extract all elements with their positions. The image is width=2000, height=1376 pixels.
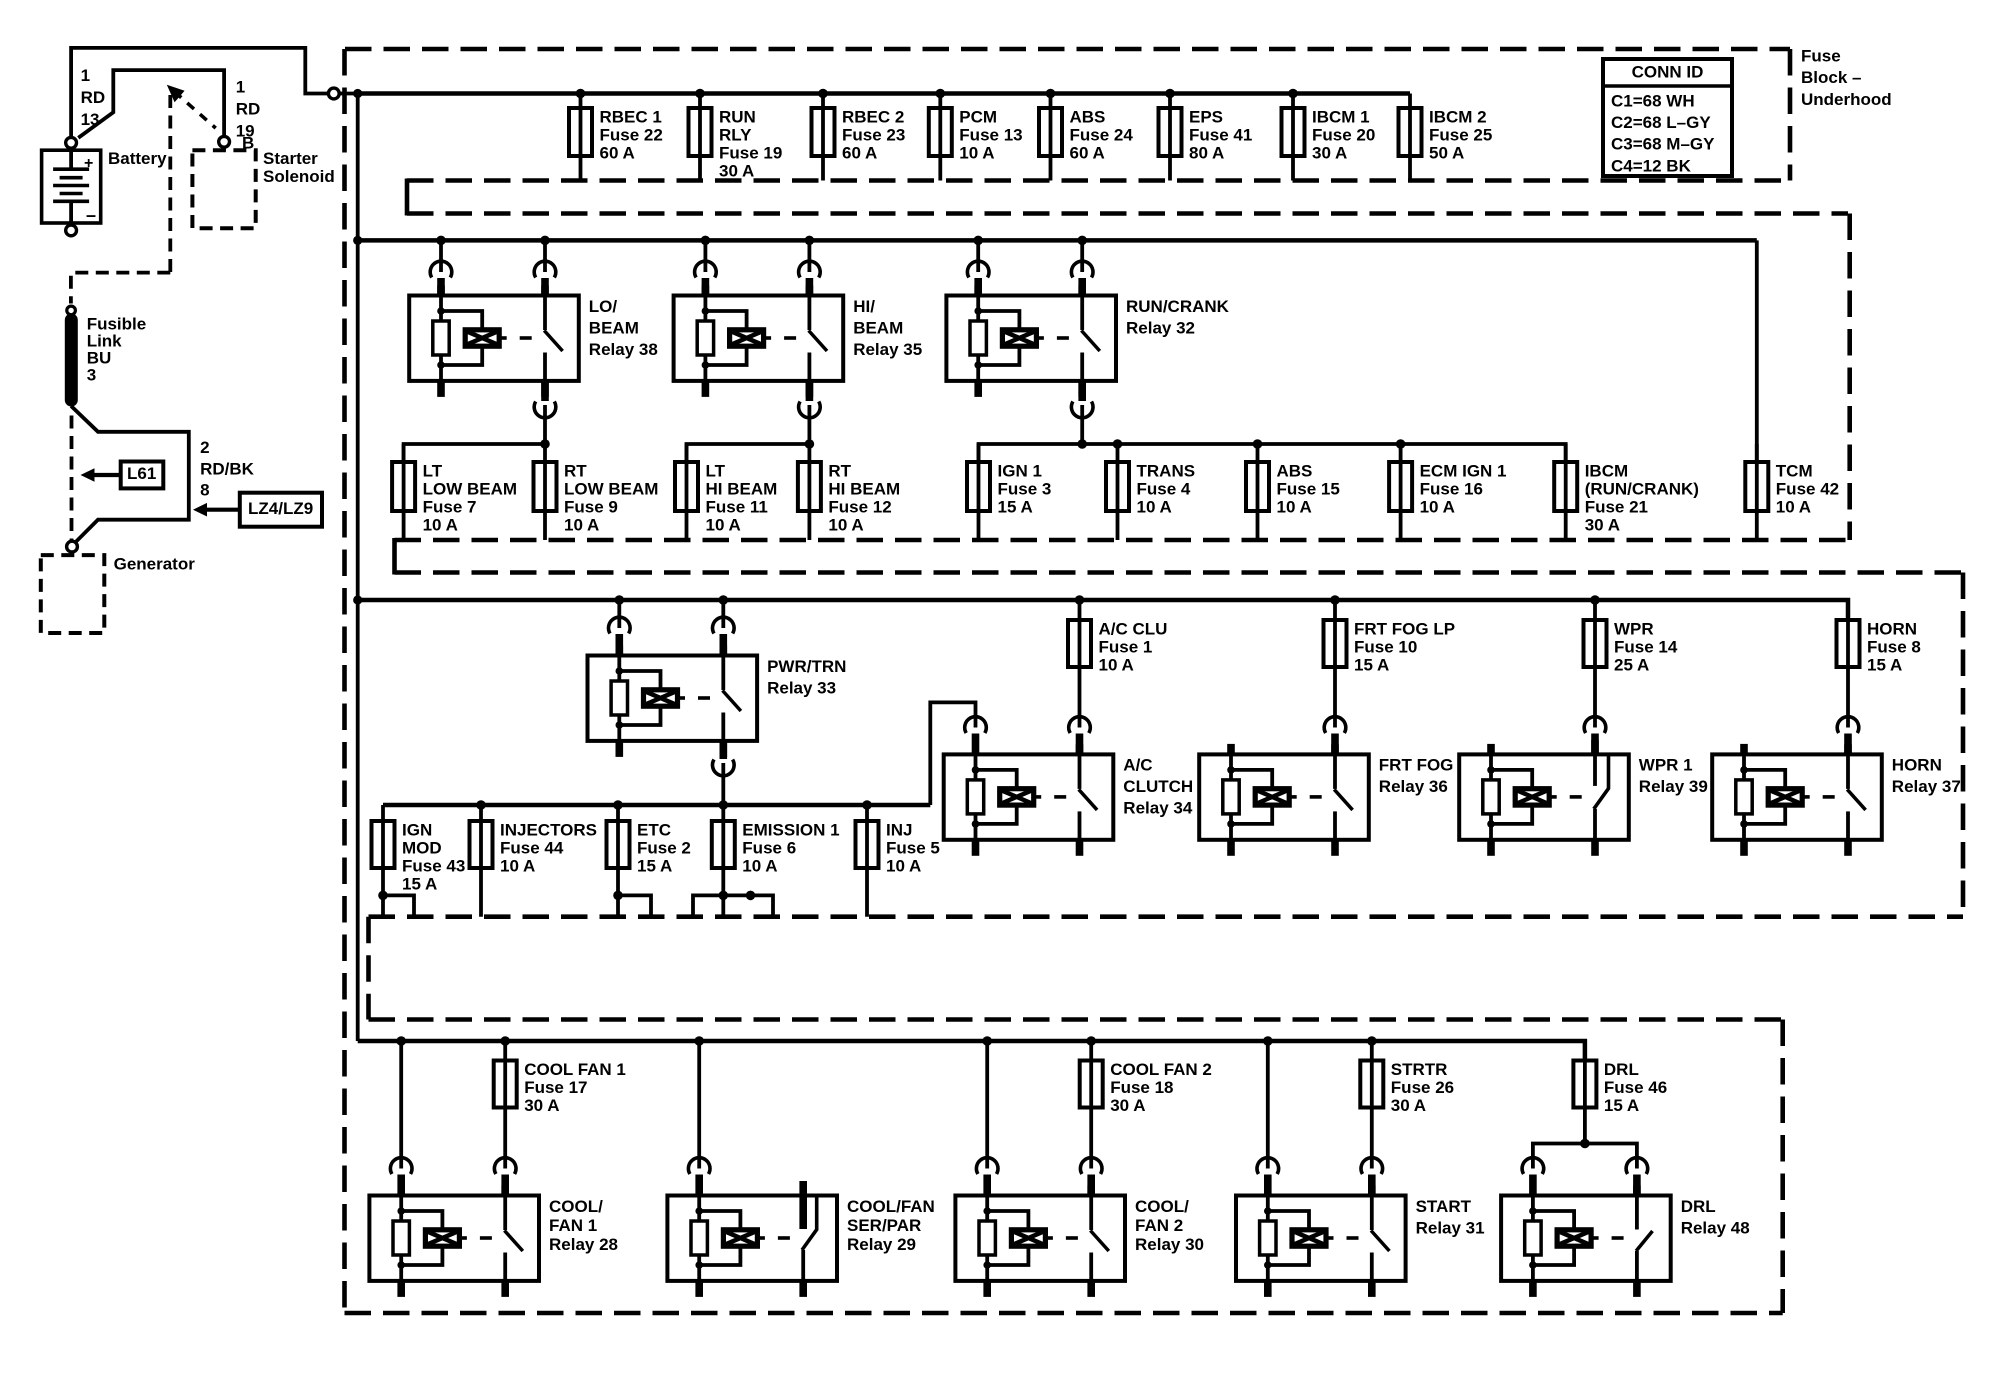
svg-text:13: 13 bbox=[81, 110, 100, 129]
svg-text:ABS: ABS bbox=[1277, 461, 1313, 480]
svg-text:1: 1 bbox=[236, 77, 245, 96]
svg-text:60 A: 60 A bbox=[1070, 143, 1105, 162]
wire hi beam link bbox=[687, 444, 810, 462]
svg-text:Fuse 9: Fuse 9 bbox=[564, 497, 618, 516]
node bus 1 at IBCM 1 bbox=[1288, 89, 1298, 99]
svg-text:HORN: HORN bbox=[1892, 756, 1942, 775]
wire bus to relay 30 coil bbox=[976, 1041, 998, 1196]
svg-text:10 A: 10 A bbox=[828, 515, 863, 534]
connector below fuse HORN bbox=[1837, 717, 1859, 755]
svg-text:Relay 48: Relay 48 bbox=[1681, 1218, 1750, 1237]
svg-text:1: 1 bbox=[81, 66, 90, 85]
svg-text:Relay 32: Relay 32 bbox=[1126, 318, 1195, 337]
connector relay 48 coil bbox=[1522, 1158, 1544, 1196]
fuse STRTR Fuse 26 bbox=[1360, 1041, 1454, 1169]
generator terminal bbox=[67, 541, 78, 552]
svg-text:Fuse 17: Fuse 17 bbox=[524, 1078, 587, 1097]
svg-text:FAN 2: FAN 2 bbox=[1135, 1216, 1183, 1235]
svg-text:COOL FAN 1: COOL FAN 1 bbox=[524, 1060, 626, 1079]
wire bus to relay 31 coil bbox=[1257, 1041, 1279, 1196]
section 2 bus wire bbox=[358, 238, 1757, 243]
svg-text:LOW BEAM: LOW BEAM bbox=[423, 479, 517, 498]
relay A/C CLUTCH Relay 34 bbox=[944, 744, 1193, 855]
svg-text:COOL/FAN: COOL/FAN bbox=[847, 1197, 935, 1216]
svg-text:RD: RD bbox=[236, 100, 261, 119]
fuse RBEC 1 (Fuse 22) bbox=[569, 94, 663, 181]
svg-text:(RUN/CRANK): (RUN/CRANK) bbox=[1585, 479, 1699, 498]
fuse EMISSION 1 Fuse 6 bbox=[712, 805, 840, 917]
svg-text:Relay 38: Relay 38 bbox=[589, 340, 658, 359]
fuse ABS (Fuse 24) bbox=[1039, 94, 1133, 181]
svg-text:BEAM: BEAM bbox=[589, 318, 639, 337]
node bus 4 feed relay 29 coil bbox=[694, 1036, 704, 1046]
node bus 4 feed relay 30 coil bbox=[982, 1036, 992, 1046]
section 3 to 4 dashed left jog bbox=[366, 917, 371, 1020]
connector jumper IGN MOD bbox=[378, 891, 414, 917]
svg-text:RD: RD bbox=[81, 88, 106, 107]
svg-text:15 A: 15 A bbox=[1604, 1096, 1639, 1115]
fusible link top terminal bbox=[67, 306, 76, 315]
svg-text:10 A: 10 A bbox=[1776, 497, 1811, 516]
section 4 top dashed edge bbox=[369, 1017, 1783, 1022]
svg-text:Fuse 3: Fuse 3 bbox=[998, 479, 1052, 498]
connector C2 bar top dashed edge bbox=[395, 538, 1850, 543]
svg-text:15 A: 15 A bbox=[1354, 655, 1389, 674]
svg-text:Relay 33: Relay 33 bbox=[767, 678, 836, 697]
svg-text:TCM: TCM bbox=[1776, 461, 1813, 480]
svg-text:ETC: ETC bbox=[637, 820, 671, 839]
svg-text:Fuse 13: Fuse 13 bbox=[959, 125, 1022, 144]
relay DRL Relay 48 bbox=[1501, 1186, 1750, 1297]
svg-text:RUN: RUN bbox=[719, 107, 756, 126]
svg-text:HI BEAM: HI BEAM bbox=[828, 479, 900, 498]
svg-text:Fuse 15: Fuse 15 bbox=[1277, 479, 1340, 498]
fuse ABS Fuse 15 bbox=[1246, 444, 1340, 540]
svg-text:IGN 1: IGN 1 bbox=[998, 461, 1042, 480]
wire DRL fuse split bbox=[1533, 1144, 1637, 1169]
svg-text:HI/: HI/ bbox=[853, 297, 875, 316]
svg-text:Fuse 14: Fuse 14 bbox=[1614, 637, 1678, 656]
svg-text:2: 2 bbox=[200, 438, 209, 457]
svg-text:Relay 29: Relay 29 bbox=[847, 1235, 916, 1254]
fuse EPS (Fuse 41) bbox=[1159, 94, 1253, 181]
svg-text:RD/BK: RD/BK bbox=[200, 459, 255, 478]
section 3 bus wire bbox=[358, 600, 1848, 620]
node bus 2 feed relay 35 switch bbox=[805, 236, 815, 246]
svg-text:RT: RT bbox=[564, 461, 587, 480]
svg-text:C3=68 M–GY: C3=68 M–GY bbox=[1611, 135, 1715, 154]
svg-text:15 A: 15 A bbox=[637, 856, 672, 875]
wires relay 35 connectors bbox=[695, 240, 821, 444]
node trunk top bbox=[353, 89, 362, 98]
svg-text:ECM IGN 1: ECM IGN 1 bbox=[1420, 461, 1507, 480]
label box L61 bbox=[81, 462, 164, 489]
svg-text:10 A: 10 A bbox=[1420, 497, 1455, 516]
node bus 1 at RUN bbox=[695, 89, 705, 99]
relay COOL/FAN SER/PAR Relay 29 bbox=[667, 1181, 934, 1297]
svg-text:30 A: 30 A bbox=[1585, 515, 1620, 534]
fuse COOL FAN 1 Fuse 17 bbox=[494, 1041, 626, 1169]
wire ring terminal to trunk bbox=[339, 92, 357, 96]
svg-text:+: + bbox=[84, 155, 93, 172]
node bus 4 feed relay 28 coil bbox=[396, 1036, 406, 1046]
svg-text:Fuse 42: Fuse 42 bbox=[1776, 479, 1839, 498]
node bus 1 at RBEC 2 bbox=[818, 89, 828, 99]
svg-text:Fuse 46: Fuse 46 bbox=[1604, 1078, 1667, 1097]
fuse IGN Fuse 43 bbox=[372, 805, 466, 917]
svg-text:50 A: 50 A bbox=[1429, 143, 1464, 162]
svg-text:10 A: 10 A bbox=[742, 856, 777, 875]
svg-text:Fuse 7: Fuse 7 bbox=[423, 497, 477, 516]
fuse RT Fuse 12 bbox=[798, 444, 900, 540]
svg-text:Fuse 6: Fuse 6 bbox=[742, 838, 796, 857]
svg-text:BEAM: BEAM bbox=[853, 318, 903, 337]
svg-text:MOD: MOD bbox=[402, 838, 442, 857]
svg-text:PCM: PCM bbox=[959, 107, 997, 126]
svg-text:Battery: Battery bbox=[108, 149, 167, 168]
svg-text:FAN 1: FAN 1 bbox=[549, 1216, 597, 1235]
node bus 4 feed relay 31 coil bbox=[1263, 1036, 1273, 1046]
svg-text:COOL/: COOL/ bbox=[1135, 1197, 1189, 1216]
svg-text:Solenoid: Solenoid bbox=[263, 167, 335, 186]
label wire 1 RD 13 bbox=[81, 66, 106, 129]
wire 2 RD/BK generator feed bbox=[71, 406, 189, 544]
node feed line at ETC fuse bbox=[613, 800, 623, 810]
svg-text:Fuse 1: Fuse 1 bbox=[1099, 637, 1153, 656]
svg-text:Fuse 44: Fuse 44 bbox=[500, 838, 564, 857]
wire injector fuse feed line bbox=[383, 702, 976, 805]
node bus 3 feed relay 33 coil bbox=[615, 595, 625, 605]
fuse IBCM 1 (Fuse 20) bbox=[1282, 94, 1376, 181]
svg-text:Relay 28: Relay 28 bbox=[549, 1235, 618, 1254]
svg-text:IBCM 1: IBCM 1 bbox=[1312, 107, 1370, 126]
svg-text:WPR: WPR bbox=[1614, 619, 1654, 638]
connector C2 bar left jog bbox=[392, 538, 397, 575]
connector below fuse COOL FAN 2 bbox=[1080, 1158, 1102, 1196]
svg-text:RUN/CRANK: RUN/CRANK bbox=[1126, 297, 1230, 316]
svg-text:3: 3 bbox=[87, 366, 96, 385]
connector C1 bar left jog bbox=[405, 179, 410, 216]
svg-text:HI BEAM: HI BEAM bbox=[706, 479, 778, 498]
svg-text:10 A: 10 A bbox=[706, 515, 741, 534]
svg-text:10 A: 10 A bbox=[1137, 497, 1172, 516]
section 3 dashed right edge bbox=[1961, 573, 1966, 917]
node bus 4 feed STRTR fuse bbox=[1367, 1036, 1377, 1046]
section 1 bus wire bbox=[358, 91, 1410, 96]
svg-text:IBCM 2: IBCM 2 bbox=[1429, 107, 1487, 126]
label box LZ4/LZ9 bbox=[193, 493, 322, 527]
svg-text:Block –: Block – bbox=[1801, 68, 1861, 87]
svg-text:Fuse 10: Fuse 10 bbox=[1354, 637, 1417, 656]
fuse HORN Fuse 8 bbox=[1837, 619, 1921, 727]
node feed line at INJECTORS fuse bbox=[476, 800, 486, 810]
fusible link BU 3 bbox=[65, 314, 78, 407]
svg-text:Fuse 4: Fuse 4 bbox=[1137, 479, 1191, 498]
connector jumper EMISSION 1 bbox=[693, 891, 773, 917]
connector C2 bar bottom dashed edge bbox=[395, 570, 1964, 575]
fuse block underhood dashed box right edge bbox=[1788, 49, 1793, 181]
node run/crank link at ABS fuse bbox=[1253, 439, 1263, 449]
svg-text:EPS: EPS bbox=[1189, 107, 1223, 126]
svg-text:–: – bbox=[86, 205, 96, 225]
wire low beam link bbox=[404, 444, 545, 462]
svg-text:Fuse 19: Fuse 19 bbox=[719, 143, 782, 162]
wire main trunk vertical bbox=[356, 94, 360, 1042]
svg-text:Fuse 2: Fuse 2 bbox=[637, 838, 691, 857]
ring terminal at fuse block feed bbox=[328, 88, 339, 99]
relay HORN Relay 37 bbox=[1712, 744, 1961, 856]
svg-text:Relay 31: Relay 31 bbox=[1416, 1218, 1485, 1237]
fuse IBCM Fuse 21 bbox=[1554, 444, 1699, 540]
svg-text:C2=68 L–GY: C2=68 L–GY bbox=[1611, 113, 1711, 132]
relay FRT FOG Relay 36 bbox=[1199, 744, 1453, 856]
node bus 2 feed relay 35 coil bbox=[701, 236, 711, 246]
svg-text:Relay 36: Relay 36 bbox=[1379, 777, 1448, 796]
svg-text:DRL: DRL bbox=[1681, 1197, 1716, 1216]
svg-text:TRANS: TRANS bbox=[1137, 461, 1196, 480]
section 4 dashed right edge bbox=[1780, 1020, 1785, 1314]
svg-text:30 A: 30 A bbox=[719, 161, 754, 180]
fuse A/C CLU Fuse 1 bbox=[1068, 600, 1167, 728]
wire battery positive to top bus bbox=[71, 48, 328, 137]
connector relay 34 coil bbox=[965, 717, 987, 755]
svg-text:HORN: HORN bbox=[1867, 619, 1917, 638]
section 3 bottom dashed edge bbox=[369, 914, 1964, 919]
relay WPR 1 Relay 39 bbox=[1459, 740, 1708, 856]
node trunk at section 2 bus bbox=[353, 236, 362, 245]
fuse RT Fuse 9 bbox=[534, 444, 659, 540]
svg-text:Fuse 25: Fuse 25 bbox=[1429, 125, 1492, 144]
svg-text:10 A: 10 A bbox=[1099, 655, 1134, 674]
node bus 2 feed relay 38 coil bbox=[436, 236, 446, 246]
section 4 bottom dashed edge bbox=[345, 1311, 1783, 1316]
fuse ECM IGN 1 Fuse 16 bbox=[1389, 444, 1506, 540]
svg-text:Starter: Starter bbox=[263, 149, 318, 168]
node bus 1 at PCM bbox=[936, 89, 946, 99]
svg-text:CLUTCH: CLUTCH bbox=[1123, 777, 1193, 796]
svg-text:PWR/TRN: PWR/TRN bbox=[767, 657, 846, 676]
svg-text:Fuse 21: Fuse 21 bbox=[1585, 497, 1648, 516]
fuse COOL FAN 2 Fuse 18 bbox=[1080, 1041, 1212, 1169]
svg-text:Relay 30: Relay 30 bbox=[1135, 1235, 1204, 1254]
label Generator bbox=[114, 554, 196, 573]
wires relay 38 connectors bbox=[430, 240, 556, 444]
svg-text:C4=12 BK: C4=12 BK bbox=[1611, 156, 1692, 175]
wire run/crank link bbox=[979, 444, 1566, 462]
node relay 33 output at feed line bbox=[719, 800, 729, 810]
connector C1 bar bottom dashed edge bbox=[407, 211, 1848, 216]
svg-text:Fuse 24: Fuse 24 bbox=[1070, 125, 1134, 144]
svg-text:Fuse: Fuse bbox=[1801, 46, 1841, 65]
svg-text:Fuse 5: Fuse 5 bbox=[886, 838, 940, 857]
label wire 1 RD 19 bbox=[236, 77, 261, 152]
svg-text:ABS: ABS bbox=[1070, 107, 1106, 126]
fuse WPR Fuse 14 bbox=[1584, 600, 1678, 728]
fuse ETC Fuse 2 bbox=[607, 805, 691, 917]
svg-text:Fuse 18: Fuse 18 bbox=[1110, 1078, 1173, 1097]
dashed wire fusible link to generator bbox=[70, 416, 74, 541]
svg-text:15 A: 15 A bbox=[402, 874, 437, 893]
node run/crank link at relay 32 output bbox=[1077, 439, 1087, 449]
svg-text:INJ: INJ bbox=[886, 820, 912, 839]
relay COOL/FAN 1 Relay 28 bbox=[369, 1186, 618, 1297]
svg-text:10 A: 10 A bbox=[500, 856, 535, 875]
section 4 bus wire bbox=[358, 1041, 1585, 1061]
svg-text:IGN: IGN bbox=[402, 820, 432, 839]
svg-text:RBEC 2: RBEC 2 bbox=[842, 107, 904, 126]
svg-text:RLY: RLY bbox=[719, 125, 752, 144]
node low beam link at relay 38 output bbox=[540, 439, 550, 449]
svg-text:FRT FOG: FRT FOG bbox=[1379, 756, 1454, 775]
svg-text:COOL/: COOL/ bbox=[549, 1197, 603, 1216]
ring terminal B starter solenoid bbox=[219, 136, 230, 147]
wire 1 RD 19 battery to starter solenoid B bbox=[78, 70, 224, 138]
svg-text:RBEC 1: RBEC 1 bbox=[600, 107, 662, 126]
connector below fuse FRT FOG LP bbox=[1324, 717, 1346, 755]
node run/crank link at TRANS fuse bbox=[1113, 439, 1123, 449]
svg-text:10 A: 10 A bbox=[959, 143, 994, 162]
CONN ID table bbox=[1603, 59, 1732, 176]
svg-text:Fuse 11: Fuse 11 bbox=[706, 497, 768, 516]
wires relay 32 connectors bbox=[967, 240, 1093, 444]
svg-text:Relay 37: Relay 37 bbox=[1892, 777, 1961, 796]
fuse INJECTORS Fuse 44 bbox=[470, 805, 598, 917]
fuse IBCM 2 (Fuse 25) bbox=[1399, 94, 1493, 181]
svg-text:Fuse 16: Fuse 16 bbox=[1420, 479, 1483, 498]
svg-text:EMISSION 1: EMISSION 1 bbox=[742, 820, 839, 839]
svg-text:CONN ID: CONN ID bbox=[1632, 62, 1704, 81]
relay LO/BEAM Relay 38 bbox=[409, 286, 658, 397]
svg-text:Generator: Generator bbox=[114, 554, 196, 573]
dashed wire solenoid to fusible link bbox=[71, 95, 170, 304]
connector below fuse COOL FAN 1 bbox=[494, 1158, 516, 1196]
fuse INJ Fuse 5 bbox=[856, 805, 940, 917]
node bus 2 feed relay 38 switch bbox=[540, 236, 550, 246]
relay HI/BEAM Relay 35 bbox=[674, 286, 923, 397]
svg-text:10 A: 10 A bbox=[886, 856, 921, 875]
svg-text:Relay 35: Relay 35 bbox=[853, 340, 922, 359]
node trunk at section 3 bus bbox=[353, 595, 362, 604]
fuse RUN (Fuse 19) bbox=[689, 94, 783, 181]
svg-text:8: 8 bbox=[200, 481, 209, 500]
svg-text:Fuse 12: Fuse 12 bbox=[828, 497, 891, 516]
label wire 2 RD/BK 8 bbox=[200, 438, 255, 499]
svg-text:10 A: 10 A bbox=[1277, 497, 1312, 516]
svg-text:Relay 39: Relay 39 bbox=[1639, 777, 1708, 796]
node bus 4 feed COOL FAN 2 fuse bbox=[1086, 1036, 1096, 1046]
relay RUN/CRANK Relay 32 bbox=[946, 286, 1229, 397]
node bus 3 feed relay 33 switch bbox=[719, 595, 729, 605]
svg-text:15 A: 15 A bbox=[1867, 655, 1902, 674]
svg-text:IBCM: IBCM bbox=[1585, 461, 1628, 480]
svg-text:Fuse 20: Fuse 20 bbox=[1312, 125, 1375, 144]
fuse PCM (Fuse 13) bbox=[929, 94, 1023, 181]
svg-text:Relay 34: Relay 34 bbox=[1123, 799, 1193, 818]
relay COOL/FAN 2 Relay 30 bbox=[955, 1186, 1204, 1297]
battery bbox=[42, 137, 101, 235]
node bus 1 at EPS bbox=[1165, 89, 1175, 99]
svg-text:C1=68 WH: C1=68 WH bbox=[1611, 91, 1695, 110]
node bus 1 at ABS bbox=[1046, 89, 1056, 99]
relay START Relay 31 bbox=[1236, 1186, 1485, 1297]
fuse TRANS Fuse 4 bbox=[1106, 444, 1195, 540]
label Starter Solenoid bbox=[263, 149, 335, 186]
fuse LT Fuse 11 bbox=[675, 444, 777, 540]
node bus 1 at RBEC 1 bbox=[576, 89, 586, 99]
node DRL split bbox=[1580, 1139, 1590, 1149]
wires relay 33 connectors bbox=[609, 600, 735, 805]
svg-text:L61: L61 bbox=[127, 464, 156, 483]
label Fuse Block Underhood bbox=[1801, 46, 1892, 108]
relay PWR/TRN Relay 33 bbox=[588, 646, 847, 757]
svg-text:30 A: 30 A bbox=[1312, 143, 1347, 162]
node bus 3 feed WPR fuse bbox=[1590, 595, 1600, 605]
svg-text:FRT FOG LP: FRT FOG LP bbox=[1354, 619, 1455, 638]
label Battery bbox=[108, 149, 167, 168]
svg-text:A/C CLU: A/C CLU bbox=[1099, 619, 1168, 638]
svg-text:Underhood: Underhood bbox=[1801, 90, 1892, 109]
connector below fuse STRTR bbox=[1361, 1158, 1383, 1196]
fuse FRT FOG LP Fuse 10 bbox=[1324, 600, 1456, 728]
svg-text:WPR 1: WPR 1 bbox=[1639, 756, 1693, 775]
solenoid plunger dashed diagonal with arrow bbox=[167, 85, 216, 128]
svg-text:START: START bbox=[1416, 1197, 1472, 1216]
node hi beam link at relay 35 output bbox=[805, 439, 815, 449]
svg-text:60 A: 60 A bbox=[842, 143, 877, 162]
fuse IGN 1 Fuse 3 bbox=[967, 444, 1051, 540]
svg-text:80 A: 80 A bbox=[1189, 143, 1224, 162]
svg-text:Fuse 8: Fuse 8 bbox=[1867, 637, 1921, 656]
generator box bbox=[41, 555, 105, 633]
connector C1 bar top dashed edge bbox=[407, 178, 1790, 183]
svg-text:A/C: A/C bbox=[1123, 756, 1152, 775]
svg-text:LO/: LO/ bbox=[589, 297, 618, 316]
svg-text:COOL FAN 2: COOL FAN 2 bbox=[1110, 1060, 1212, 1079]
svg-text:LT: LT bbox=[423, 461, 443, 480]
section 2 dashed right edge bbox=[1847, 214, 1852, 541]
connector below fuse A/C CLU bbox=[1069, 717, 1091, 755]
svg-text:Fuse 43: Fuse 43 bbox=[402, 856, 465, 875]
fuse block underhood dashed box top edge bbox=[345, 47, 1790, 52]
wire bus to relay 29 coil bbox=[688, 1041, 710, 1196]
svg-text:30 A: 30 A bbox=[524, 1096, 559, 1115]
svg-text:Fuse 23: Fuse 23 bbox=[842, 125, 905, 144]
connector below fuse WPR bbox=[1584, 717, 1606, 755]
svg-text:DRL: DRL bbox=[1604, 1060, 1639, 1079]
node bus 3 feed A/C CLU fuse bbox=[1075, 595, 1085, 605]
svg-text:SER/PAR: SER/PAR bbox=[847, 1216, 921, 1235]
fuse LT Fuse 7 bbox=[392, 444, 517, 540]
svg-text:30 A: 30 A bbox=[1110, 1096, 1145, 1115]
node bus 2 feed relay 32 switch bbox=[1077, 236, 1087, 246]
starter solenoid box bbox=[192, 147, 255, 228]
node bus 3 feed FRT FOG LP fuse bbox=[1330, 595, 1340, 605]
node bus 2 feed relay 32 coil bbox=[973, 236, 983, 246]
wire TCM fuse feed bbox=[1755, 240, 1759, 462]
svg-text:Fuse 41: Fuse 41 bbox=[1189, 125, 1252, 144]
node feed line at INJ fuse bbox=[862, 800, 872, 810]
wire bus to relay 28 coil bbox=[390, 1041, 412, 1196]
svg-text:LZ4/LZ9: LZ4/LZ9 bbox=[248, 499, 313, 518]
fuse TCM Fuse 42 bbox=[1745, 444, 1839, 540]
svg-text:25 A: 25 A bbox=[1614, 655, 1649, 674]
svg-text:15 A: 15 A bbox=[998, 497, 1033, 516]
svg-text:LOW BEAM: LOW BEAM bbox=[564, 479, 658, 498]
svg-text:Fuse 22: Fuse 22 bbox=[600, 125, 663, 144]
svg-text:10 A: 10 A bbox=[423, 515, 458, 534]
svg-text:INJECTORS: INJECTORS bbox=[500, 820, 597, 839]
svg-text:RT: RT bbox=[828, 461, 851, 480]
